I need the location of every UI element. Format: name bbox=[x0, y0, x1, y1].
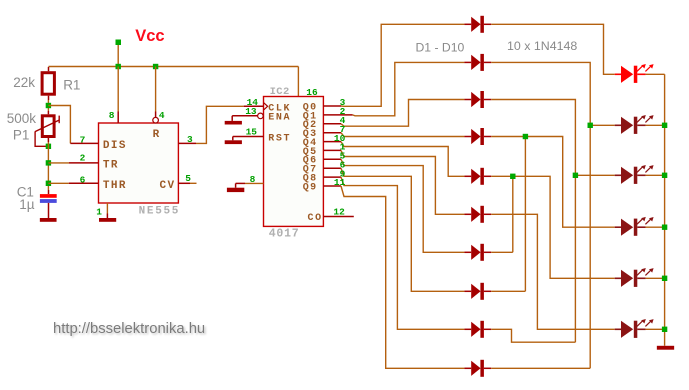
diode D4 bbox=[464, 136, 471, 138]
svg-text:RST: RST bbox=[268, 133, 291, 144]
pin CV bbox=[178, 182, 190, 184]
junction LED5 right bbox=[662, 276, 667, 281]
wire net Q5 to D6 bbox=[341, 150, 464, 214]
pin Q5 stub and number 1 bbox=[323, 149, 341, 151]
svg-text:11: 11 bbox=[334, 177, 346, 188]
wire Vcc rail bbox=[49, 66, 299, 68]
svg-text:CO: CO bbox=[308, 213, 323, 224]
pin 8 top bbox=[117, 112, 119, 124]
svg-text:12: 12 bbox=[333, 206, 345, 217]
pin Q6 stub and number 5 bbox=[323, 158, 341, 160]
wire net Q1 to D2 bbox=[353, 62, 465, 115]
pin Q0 stub and number 3 bbox=[323, 105, 341, 107]
wire LED3 feed bbox=[575, 174, 614, 176]
junction node TR bbox=[46, 160, 51, 165]
svg-text:22k: 22k bbox=[13, 75, 35, 90]
junction Vcc-pin4 bbox=[153, 64, 158, 69]
diode D5 bbox=[464, 175, 471, 177]
junction node DIS bbox=[46, 103, 51, 108]
wire D3 to LED3 rail bbox=[491, 100, 575, 343]
wire net Q8 to D9 bbox=[341, 177, 464, 329]
wire LED5 feed bbox=[513, 176, 615, 278]
pin 4 reset top bbox=[155, 112, 157, 118]
wire 555 out to CLK bbox=[196, 106, 244, 143]
junction LED3 left bbox=[573, 173, 578, 178]
svg-text:5: 5 bbox=[185, 173, 191, 184]
wire D5 rail to D7 bbox=[491, 176, 513, 252]
svg-text:3: 3 bbox=[187, 134, 193, 145]
junction wiper bbox=[46, 144, 51, 149]
svg-text:1: 1 bbox=[96, 207, 102, 218]
resistor R1 bbox=[42, 73, 54, 95]
diode D8 bbox=[464, 290, 471, 292]
wire THR net bbox=[48, 182, 68, 184]
wire TR net bbox=[48, 162, 69, 164]
svg-text:THR: THR bbox=[103, 180, 127, 192]
pin 8 gnd 4017 bbox=[245, 182, 264, 184]
wire P1-C1 chain bbox=[47, 142, 49, 190]
wire D10 to LED2 rail bbox=[491, 367, 590, 369]
junction LED3 right bbox=[662, 173, 667, 178]
svg-text:ENA: ENA bbox=[268, 113, 291, 124]
svg-text:13: 13 bbox=[245, 106, 257, 117]
svg-text:6: 6 bbox=[80, 174, 86, 185]
wire D6 to LED6 bbox=[491, 214, 615, 329]
svg-text:http://bsselektronika.hu: http://bsselektronika.hu bbox=[53, 321, 205, 337]
svg-text:15: 15 bbox=[246, 127, 258, 138]
svg-text:IC2: IC2 bbox=[270, 86, 290, 98]
junction Vcc-pin8 bbox=[116, 64, 121, 69]
pin Q2 stub and number 4 bbox=[323, 123, 341, 125]
wire Vcc stub bbox=[117, 45, 119, 67]
ground 4017 pin8 bbox=[235, 183, 237, 187]
diode D3 bbox=[464, 99, 471, 101]
pin Q7 stub and number 6 bbox=[323, 167, 341, 169]
svg-text:TR: TR bbox=[103, 159, 119, 171]
LED LED4 bbox=[615, 226, 622, 228]
op-amp U2 4017 box bbox=[264, 97, 324, 227]
LED LED6 bbox=[615, 328, 622, 330]
wire net Q7 to D8 bbox=[341, 168, 464, 291]
svg-text:CV: CV bbox=[159, 180, 175, 192]
pin 3 output bbox=[178, 142, 196, 144]
pin Q1 stub and number 2 bbox=[323, 114, 352, 116]
svg-text:Q9: Q9 bbox=[303, 182, 318, 193]
wire net Q0 to D1 bbox=[341, 24, 464, 106]
ground ENA bbox=[231, 116, 233, 121]
diode D2 bbox=[464, 61, 471, 63]
junction LED4 right bbox=[662, 225, 667, 230]
svg-text:Vcc: Vcc bbox=[135, 27, 164, 45]
wire D9 to LED3 rail bbox=[491, 329, 575, 342]
LED LED3 bbox=[615, 174, 622, 176]
svg-text:7: 7 bbox=[80, 134, 86, 145]
wire D1 to LED1 bbox=[491, 24, 615, 74]
LED LED1 bbox=[615, 73, 622, 75]
pin Q3 stub and number 7 bbox=[323, 132, 341, 134]
svg-text:8: 8 bbox=[109, 110, 115, 121]
svg-text:8: 8 bbox=[250, 174, 256, 185]
junction node THR bbox=[46, 181, 51, 186]
pin TR bbox=[69, 162, 99, 164]
wire net Q3 to D4 bbox=[341, 133, 464, 137]
svg-text:P1: P1 bbox=[13, 128, 30, 143]
wire P1 wiper bbox=[35, 132, 48, 147]
svg-text:4: 4 bbox=[159, 110, 165, 121]
op-amp U1 NE555 box bbox=[99, 123, 179, 203]
junction LED2 left bbox=[588, 123, 593, 128]
diode D10 bbox=[464, 367, 471, 369]
svg-text:R: R bbox=[153, 129, 160, 141]
junction D5-D7 bbox=[510, 174, 515, 179]
ground LED rail bbox=[657, 346, 674, 350]
diode D6 bbox=[464, 213, 471, 215]
junction LED6 right bbox=[662, 327, 667, 332]
svg-text:10 x 1N4148: 10 x 1N4148 bbox=[507, 39, 577, 53]
wire R1-P1 bbox=[47, 100, 49, 111]
wire D2 to LED2 rail bbox=[491, 62, 590, 368]
LED LED2 bbox=[615, 124, 622, 126]
pin CLK bbox=[244, 105, 264, 107]
wire D8 to rail bbox=[491, 290, 525, 292]
pin RST bbox=[233, 136, 264, 138]
wire LED4 feed bbox=[525, 137, 614, 228]
svg-text:NE555: NE555 bbox=[139, 206, 181, 218]
wire LED cathode rail bbox=[646, 73, 665, 75]
ground RST bbox=[232, 137, 234, 141]
ground C1 bbox=[40, 218, 57, 222]
diode D7 bbox=[464, 251, 471, 253]
pin ENA bbox=[232, 115, 257, 117]
svg-text:4017: 4017 bbox=[269, 227, 300, 240]
wire LED2 feed bbox=[590, 124, 615, 126]
svg-text:DIS: DIS bbox=[103, 140, 127, 152]
svg-text:D1 - D10: D1 - D10 bbox=[416, 41, 465, 55]
pin CO bbox=[323, 216, 353, 218]
pin Q8 stub and number 9 bbox=[323, 176, 341, 178]
svg-text:R1: R1 bbox=[63, 78, 80, 93]
pin DIS bbox=[70, 142, 98, 144]
diode D9 bbox=[464, 328, 471, 330]
pin Q9 stub and number 11 bbox=[323, 185, 341, 187]
svg-text:2: 2 bbox=[80, 152, 86, 163]
svg-text:16: 16 bbox=[306, 87, 318, 98]
capacitor C1 bbox=[48, 190, 50, 194]
power symbol Vcc bbox=[116, 40, 122, 46]
junction D4-D8 bbox=[523, 134, 528, 139]
wire net Q9 to D10 bbox=[341, 186, 464, 368]
svg-text:500k: 500k bbox=[7, 111, 37, 126]
pin THR bbox=[69, 182, 99, 184]
wire net Q4 to D5 bbox=[341, 142, 464, 177]
wire DIS net bbox=[48, 106, 70, 144]
pin Q4 stub and number 10 bbox=[323, 141, 341, 143]
pin 1 gnd bbox=[106, 203, 108, 214]
wire net Q2 to D3 bbox=[341, 100, 464, 127]
svg-text:1µ: 1µ bbox=[19, 197, 35, 212]
LED LED5 bbox=[615, 277, 622, 279]
junction LED2 right bbox=[662, 123, 667, 128]
potentiometer P1 bbox=[42, 116, 54, 137]
wire D7 to rail bbox=[491, 251, 513, 253]
diode D1 bbox=[464, 23, 471, 25]
wire pin4 net bbox=[155, 67, 157, 112]
wire D4 rail to D8 bbox=[491, 137, 525, 292]
wire net Q6 to D7 bbox=[341, 159, 464, 252]
wire IC2 pin16 drop bbox=[297, 67, 299, 97]
wire pin8 net bbox=[117, 67, 119, 112]
ground 555 pin1 bbox=[99, 218, 116, 222]
